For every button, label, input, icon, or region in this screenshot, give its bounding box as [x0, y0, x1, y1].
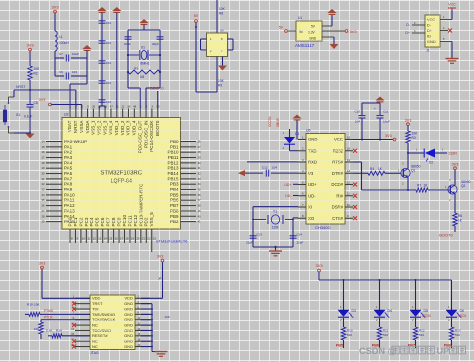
- svg-text:TMS/SWDIO: TMS/SWDIO: [92, 312, 115, 317]
- svg-text:3V3: 3V3: [157, 255, 164, 259]
- svg-text:GND: GND: [309, 37, 317, 41]
- svg-text:R8: R8: [219, 12, 223, 16]
- svg-text:27: 27: [41, 209, 45, 213]
- svg-text:39: 39: [198, 209, 202, 213]
- svg-text:104: 104: [106, 81, 111, 85]
- svg-text:PB7: PB7: [170, 203, 179, 208]
- svg-text:22pF: 22pF: [246, 241, 253, 245]
- svg-text:48: 48: [133, 105, 137, 109]
- svg-text:3V3: 3V3: [452, 163, 459, 167]
- svg-text:TRST: TRST: [92, 301, 103, 306]
- svg-text:30: 30: [198, 161, 202, 165]
- svg-text:U2: U2: [64, 113, 69, 117]
- svg-text:12M: 12M: [272, 226, 279, 230]
- svg-text:21: 21: [142, 237, 146, 241]
- svg-text:D+: D+: [405, 31, 410, 35]
- svg-text:C12: C12: [262, 166, 268, 170]
- svg-text:R10: R10: [347, 329, 353, 333]
- svg-text:14: 14: [347, 158, 351, 162]
- svg-text:GND: GND: [124, 339, 133, 344]
- svg-text:PA0-WKUP: PA0-WKUP: [64, 139, 87, 144]
- svg-text:UD+: UD+: [284, 183, 291, 187]
- svg-text:10K: 10K: [219, 7, 226, 11]
- svg-text:R13: R13: [455, 329, 461, 333]
- svg-text:16: 16: [115, 237, 119, 241]
- svg-text:10uF: 10uF: [383, 120, 390, 124]
- svg-text:37: 37: [198, 198, 202, 202]
- svg-text:+: +: [374, 107, 376, 111]
- svg-text:R2: R2: [34, 72, 38, 76]
- svg-text:3V3: 3V3: [39, 98, 46, 102]
- svg-text:CSDN @: CSDN @: [359, 346, 397, 356]
- svg-text:13: 13: [98, 237, 102, 241]
- svg-text:R6: R6: [458, 214, 462, 218]
- svg-text:10: 10: [82, 237, 86, 241]
- svg-text:CH340G: CH340G: [315, 225, 331, 230]
- svg-text:14: 14: [104, 237, 108, 241]
- svg-text:PA8: PA8: [64, 182, 73, 187]
- svg-text:510: 510: [419, 333, 424, 337]
- svg-text:12: 12: [93, 237, 97, 241]
- svg-text:3V3: 3V3: [405, 119, 412, 123]
- svg-text:VDD_4: VDD_4: [132, 120, 137, 135]
- svg-text:35: 35: [198, 188, 202, 192]
- svg-text:BOOT0: BOOT0: [439, 233, 453, 238]
- svg-text:Q1: Q1: [411, 169, 416, 173]
- svg-text:22: 22: [41, 182, 45, 186]
- svg-text:17: 17: [120, 237, 124, 241]
- svg-text:BOOT0: BOOT0: [150, 86, 164, 91]
- svg-text:PB3: PB3: [170, 182, 179, 187]
- svg-text:28: 28: [41, 214, 45, 218]
- svg-text:PA6: PA6: [64, 171, 73, 176]
- svg-text:D5: D5: [424, 309, 429, 313]
- svg-text:10K: 10K: [34, 303, 40, 307]
- svg-text:PC8: PC8: [111, 217, 116, 226]
- svg-text:20: 20: [136, 237, 140, 241]
- svg-text:PC3: PC3: [84, 217, 89, 226]
- svg-text:0.1uF: 0.1uF: [24, 115, 32, 119]
- svg-text:3V3: 3V3: [51, 5, 59, 10]
- svg-text:R12: R12: [419, 329, 425, 333]
- svg-text:10K: 10K: [165, 315, 170, 319]
- svg-text:PB1: PB1: [170, 144, 179, 149]
- svg-text:20pF: 20pF: [124, 42, 131, 46]
- svg-text:NRST: NRST: [73, 120, 78, 133]
- svg-text:ID: ID: [427, 33, 431, 38]
- svg-text:VDD_2: VDD_2: [120, 120, 125, 135]
- svg-text:11: 11: [87, 237, 90, 241]
- svg-text:UD-: UD-: [285, 194, 292, 198]
- svg-text:23: 23: [41, 188, 45, 192]
- svg-text:PA3: PA3: [64, 155, 73, 160]
- svg-text:13: 13: [347, 169, 351, 173]
- svg-text:36: 36: [198, 193, 202, 197]
- svg-text:U1: U1: [298, 16, 302, 20]
- svg-text:XI: XI: [308, 205, 312, 210]
- svg-text:U5: U5: [306, 129, 311, 133]
- svg-text:15: 15: [41, 145, 45, 149]
- svg-text:21: 21: [41, 177, 45, 181]
- svg-text:232R: 232R: [449, 152, 458, 156]
- svg-text:16: 16: [347, 135, 351, 139]
- svg-text:17: 17: [41, 156, 45, 160]
- svg-text:PB5: PB5: [336, 344, 343, 348]
- svg-text:3V3: 3V3: [350, 29, 358, 34]
- svg-text:26: 26: [41, 204, 45, 208]
- svg-text:D1: D1: [295, 132, 300, 136]
- svg-text:40: 40: [198, 214, 202, 218]
- svg-text:D6: D6: [460, 309, 465, 313]
- svg-text:47: 47: [110, 105, 114, 109]
- svg-text:19: 19: [41, 166, 45, 170]
- svg-text:LED1: LED1: [459, 314, 467, 318]
- svg-text:LED0: LED0: [423, 314, 431, 318]
- svg-text:10K: 10K: [218, 79, 225, 83]
- svg-text:PB5: PB5: [170, 192, 179, 197]
- svg-text:D4: D4: [388, 309, 393, 313]
- svg-text:14: 14: [41, 140, 45, 144]
- svg-text:VSS_4: VSS_4: [108, 120, 113, 135]
- svg-text:DCD#: DCD#: [331, 182, 343, 187]
- svg-text:VDDA: VDDA: [85, 120, 90, 134]
- svg-text:PC9: PC9: [116, 217, 121, 226]
- svg-text:28: 28: [198, 150, 202, 154]
- svg-text:PB0: PB0: [170, 139, 179, 144]
- svg-text:25: 25: [41, 198, 45, 202]
- svg-text:29: 29: [41, 220, 45, 224]
- svg-text:PA4: PA4: [64, 160, 73, 165]
- svg-text:AMS1117: AMS1117: [295, 43, 315, 48]
- svg-text:C8: C8: [34, 101, 38, 105]
- svg-text:27: 27: [198, 145, 202, 149]
- svg-text:JTAG: JTAG: [90, 351, 99, 355]
- svg-text:PTCK: PTCK: [44, 316, 54, 320]
- svg-text:R3: R3: [134, 67, 138, 71]
- svg-text:J1: J1: [426, 49, 430, 53]
- svg-text:24: 24: [41, 193, 45, 197]
- svg-text:10K: 10K: [34, 67, 41, 71]
- svg-text:8MHz: 8MHz: [140, 62, 149, 66]
- svg-text:22: 22: [147, 237, 151, 241]
- svg-text:L1: L1: [59, 35, 63, 39]
- svg-text:VBUS: VBUS: [276, 117, 280, 127]
- svg-text:DTR#: DTR#: [332, 171, 344, 176]
- svg-text:15: 15: [109, 237, 113, 241]
- svg-text:3V3: 3V3: [26, 43, 34, 48]
- svg-text:GND: GND: [124, 312, 133, 317]
- svg-text:PB2: PB2: [170, 219, 179, 224]
- svg-text:15: 15: [347, 147, 351, 151]
- svg-text:PA1: PA1: [64, 144, 73, 149]
- svg-text:PD1-OSC_IN: PD1-OSC_IN: [143, 121, 148, 149]
- svg-text:104: 104: [106, 100, 111, 104]
- svg-text:12: 12: [347, 180, 351, 184]
- svg-text:D2: D2: [429, 161, 433, 165]
- svg-text:20pF: 20pF: [152, 42, 159, 46]
- svg-text:PTMS: PTMS: [44, 309, 54, 313]
- svg-text:PD2: PD2: [144, 217, 149, 226]
- svg-text:18: 18: [126, 237, 130, 241]
- svg-text:16: 16: [41, 150, 45, 154]
- svg-text:10uF: 10uF: [72, 52, 79, 56]
- svg-text:U4: U4: [220, 29, 224, 33]
- svg-text:20: 20: [41, 172, 45, 176]
- svg-text:RESET#: RESET#: [92, 333, 108, 338]
- svg-text:PC5: PC5: [95, 217, 100, 226]
- svg-text:VCC: VCC: [448, 3, 456, 7]
- svg-text:R3: R3: [412, 136, 416, 140]
- svg-text:R4: R4: [370, 167, 374, 171]
- svg-text:DSR#: DSR#: [332, 205, 344, 210]
- svg-text:C9: C9: [59, 70, 63, 74]
- svg-text:C14: C14: [297, 233, 303, 237]
- svg-text:R11: R11: [383, 329, 389, 333]
- svg-text:32: 32: [198, 172, 202, 176]
- svg-text:1M: 1M: [140, 75, 145, 79]
- svg-text:PB9: PB9: [170, 214, 179, 219]
- svg-text:38: 38: [198, 204, 202, 208]
- svg-text:100uH: 100uH: [59, 41, 69, 45]
- svg-text:104: 104: [72, 70, 77, 74]
- svg-text:VDD: VDD: [125, 296, 134, 301]
- svg-text:510: 510: [383, 333, 388, 337]
- svg-text:20: 20: [92, 105, 96, 109]
- svg-text:NC: NC: [92, 339, 98, 344]
- svg-text:5V: 5V: [194, 14, 199, 18]
- svg-text:GND: GND: [124, 317, 133, 322]
- svg-text:NC: NC: [92, 323, 98, 328]
- svg-text:104: 104: [106, 61, 111, 65]
- svg-text:22pF: 22pF: [297, 241, 304, 245]
- svg-text:36: 36: [127, 105, 131, 109]
- svg-text:33: 33: [198, 177, 202, 181]
- svg-text:18: 18: [41, 161, 45, 165]
- svg-text:GND: GND: [124, 344, 133, 349]
- svg-text:PA5: PA5: [64, 166, 73, 171]
- svg-text:GND: GND: [124, 333, 133, 338]
- svg-text:60: 60: [157, 105, 161, 109]
- svg-text:RI#: RI#: [336, 193, 343, 198]
- svg-text:GND: GND: [427, 39, 436, 44]
- svg-text:34: 34: [198, 182, 202, 186]
- svg-text:S1: S1: [16, 113, 20, 117]
- svg-text:D3: D3: [352, 309, 357, 313]
- svg-text:V3: V3: [308, 171, 314, 176]
- svg-text:R14: R14: [56, 329, 62, 333]
- svg-text:3V3: 3V3: [315, 263, 323, 268]
- svg-text:STM32F103RCT6: STM32F103RCT6: [156, 239, 187, 244]
- svg-text:19: 19: [131, 237, 135, 241]
- svg-text:5V: 5V: [279, 26, 284, 30]
- svg-text:VCC: VCC: [334, 137, 343, 142]
- svg-text:104: 104: [106, 21, 111, 25]
- svg-text:PA9: PA9: [64, 187, 73, 192]
- svg-text:GND: GND: [124, 323, 133, 328]
- svg-text:VCC: VCC: [427, 17, 435, 22]
- svg-text:VSS_3: VSS_3: [102, 120, 107, 135]
- svg-text:Y1: Y1: [273, 210, 277, 214]
- svg-text:11: 11: [347, 192, 350, 196]
- svg-text:10K: 10K: [412, 132, 419, 136]
- svg-text:PC13-TAMPER-RTC: PC13-TAMPER-RTC: [138, 183, 143, 227]
- svg-text:PB4: PB4: [170, 187, 179, 192]
- svg-text:10: 10: [347, 203, 351, 207]
- svg-text:NC: NC: [92, 344, 98, 349]
- svg-text:22: 22: [121, 105, 125, 109]
- svg-text:VCC5V: VCC5V: [268, 115, 272, 127]
- svg-text:C7: C7: [59, 52, 63, 56]
- svg-text:PC6: PC6: [100, 217, 105, 226]
- svg-text:104: 104: [106, 41, 111, 45]
- svg-text:UP: UP: [437, 346, 450, 356]
- svg-text:29: 29: [198, 156, 202, 160]
- svg-text:GND: GND: [124, 301, 133, 306]
- svg-text:STM32F103RC: STM32F103RC: [100, 171, 142, 177]
- svg-text:C11: C11: [383, 110, 389, 114]
- svg-text:C10: C10: [354, 110, 360, 114]
- svg-text:VSS_2: VSS_2: [96, 120, 101, 135]
- svg-text:Q2: Q2: [461, 184, 466, 188]
- svg-text:3V3: 3V3: [39, 262, 46, 266]
- svg-text:TCK/SWCLK: TCK/SWCLK: [92, 317, 116, 322]
- svg-text:R7: R7: [417, 184, 421, 188]
- svg-text:JP: JP: [158, 277, 162, 281]
- svg-text:41: 41: [198, 220, 202, 224]
- svg-text:104: 104: [272, 166, 277, 170]
- svg-text:X1: X1: [141, 46, 145, 50]
- svg-text:C13: C13: [257, 233, 263, 237]
- svg-text:VSS_1: VSS_1: [91, 120, 96, 135]
- svg-text:R9: R9: [218, 84, 222, 88]
- svg-text:VDD_1: VDD_1: [114, 120, 119, 135]
- svg-text:21: 21: [116, 105, 120, 109]
- svg-text:3V3: 3V3: [385, 134, 392, 138]
- svg-text:R19: R19: [27, 303, 33, 307]
- svg-text:510: 510: [347, 333, 352, 337]
- svg-text:PB7: PB7: [408, 344, 415, 348]
- svg-text:LQFP-64: LQFP-64: [111, 179, 132, 185]
- svg-text:26: 26: [198, 140, 202, 144]
- svg-text:510: 510: [455, 333, 460, 337]
- svg-text:10K: 10K: [34, 327, 39, 331]
- svg-text:31: 31: [198, 166, 202, 170]
- svg-text:NRST: NRST: [16, 85, 26, 89]
- svg-text:104: 104: [355, 120, 360, 124]
- svg-text:5.1K: 5.1K: [46, 329, 53, 333]
